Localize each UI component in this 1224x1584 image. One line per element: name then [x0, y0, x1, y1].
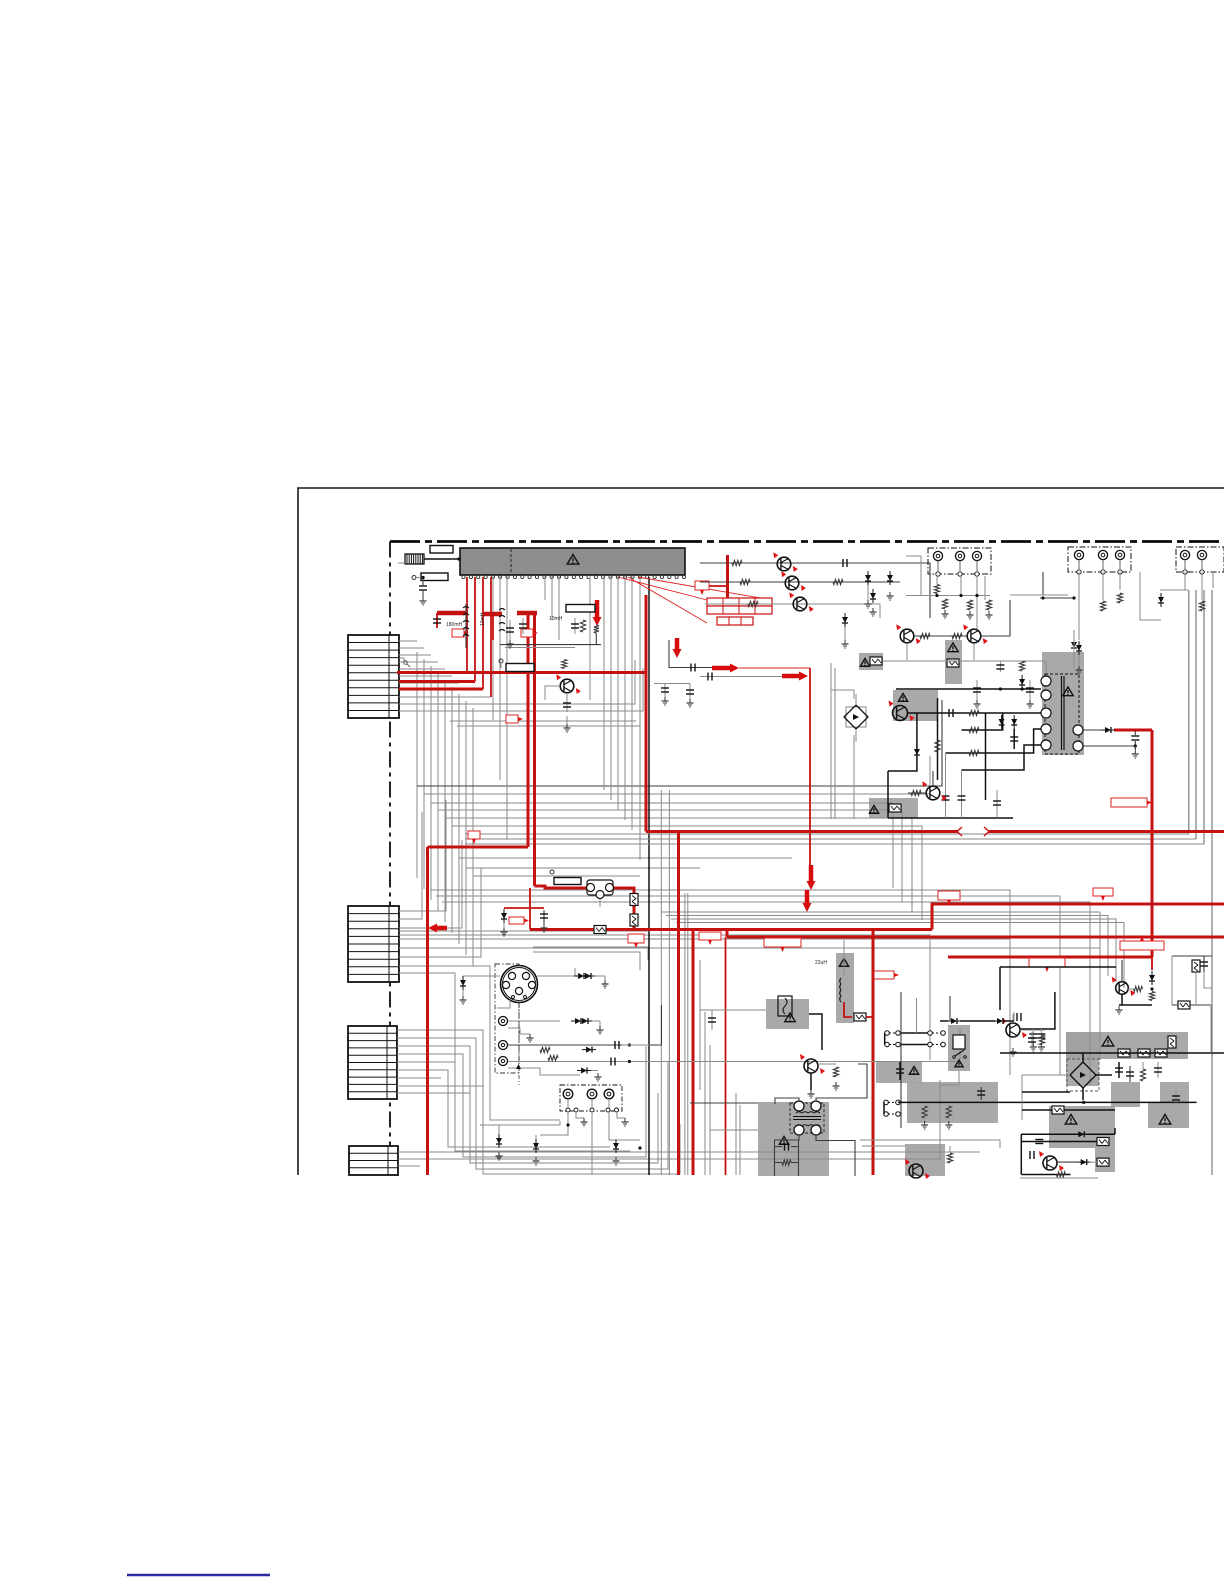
- red pair bar: [517, 611, 537, 616]
- wire mid bundle: [417, 700, 942, 786]
- wire fence vertical: [709, 1045, 711, 1175]
- svg-text:180mH: 180mH: [446, 622, 463, 628]
- transformer T602 core: [793, 1112, 821, 1126]
- wire smps drain: [908, 712, 1041, 714]
- wire vertical bundle: [423, 659, 425, 889]
- wire nest: [442, 902, 1090, 1085]
- gnd rg8b: [945, 1121, 952, 1129]
- red label box mid1: [699, 932, 721, 945]
- warning triangle mid: [909, 1067, 918, 1075]
- capacitor Cq616: [1030, 1151, 1034, 1159]
- chassis dash-dot boundary vertical: [389, 542, 391, 1176]
- red bus y931: [530, 928, 932, 931]
- diode Db3: [613, 1139, 620, 1165]
- red ic pin drops: [467, 577, 491, 697]
- dot j602a: [1072, 596, 1075, 599]
- fuse F601: [630, 894, 638, 906]
- gnd q615: [1010, 1048, 1017, 1056]
- wire ic pin drop: [603, 576, 605, 790]
- wire nest: [671, 919, 1116, 982]
- wire db602 bot: [1082, 1088, 1084, 1100]
- diode Ds1: [999, 715, 1005, 729]
- wire t601 right out: [1083, 729, 1104, 731]
- fuse RC2: [1178, 1001, 1190, 1009]
- red vertical x427: [426, 847, 429, 1175]
- red label ptr5: [628, 934, 644, 948]
- jumper pairs JP2: [884, 1100, 901, 1116]
- fuse element: [778, 996, 792, 1016]
- red wire CN1 pin bus 2: [399, 688, 483, 691]
- wire CN2 row e: [399, 939, 1010, 1075]
- red pin table: [707, 598, 772, 625]
- wire right bundle a: [1188, 590, 1190, 834]
- gray box switch: [948, 1025, 970, 1071]
- resistor R616: [952, 633, 962, 638]
- fuse G1c: [1155, 1049, 1167, 1057]
- wire mid bundle: [431, 803, 893, 888]
- dot b2: [638, 1146, 641, 1149]
- wire t602 top1: [775, 1098, 799, 1104]
- wire CN3 staircase: [397, 1046, 646, 1157]
- triangle marker: [516, 1064, 521, 1069]
- capacitor C667: [691, 664, 695, 672]
- red diag fan2: [638, 577, 772, 600]
- wire db602 left: [1022, 1074, 1070, 1076]
- red small label: [695, 581, 709, 595]
- crt socket outer: [501, 966, 538, 1003]
- fuse G6b: [1097, 1158, 1109, 1166]
- wire q617 e: [1121, 994, 1123, 1005]
- wire q605 right: [981, 600, 1010, 636]
- capacitor C607: [506, 620, 514, 648]
- wire cn5 2: [591, 1099, 593, 1108]
- red drop x727: [726, 930, 729, 938]
- wire jp left: [884, 1033, 886, 1045]
- wire q613 col: [810, 1073, 812, 1090]
- resistor Rg8a: [922, 1106, 927, 1118]
- wire row y563: [700, 563, 930, 618]
- wire bus right: [465, 843, 1204, 845]
- wire harness CN4: [398, 1151, 980, 1153]
- dot j602b: [1041, 596, 1044, 599]
- resistor RJ3: [967, 600, 972, 610]
- wire ic pin drop: [624, 576, 626, 820]
- resistor Rq615: [1039, 1035, 1044, 1045]
- wire ic pin drop: [631, 576, 633, 830]
- red relay feed: [535, 886, 588, 888]
- label box tp1: [566, 605, 595, 613]
- wire ic pin drop: [499, 576, 501, 780]
- capacitor Ctop1: [996, 661, 1004, 672]
- connector CN5 dash-dot: [560, 1085, 622, 1111]
- test point circle: [412, 576, 425, 580]
- dot smps1: [999, 687, 1002, 690]
- wire smps v-drain: [888, 713, 917, 771]
- wire under-bus a: [533, 947, 648, 960]
- wire t602 chain v: [798, 1140, 800, 1176]
- resistor R613: [748, 601, 758, 606]
- red label ptr4: [468, 831, 480, 844]
- fuse resistor FA: [947, 659, 959, 667]
- red bus y831 cont: [988, 830, 1224, 833]
- gray box cap mid: [876, 1062, 922, 1083]
- gray box G2: [1111, 1082, 1140, 1107]
- wire y667 left: [669, 640, 712, 668]
- connector J602 dash-dot: [1068, 547, 1131, 574]
- dot q617: [1150, 987, 1153, 990]
- chassis dash-dot boundary horizontal: [390, 540, 1224, 543]
- fuse G1b: [1138, 1049, 1150, 1057]
- warning triangle G1: [1102, 1036, 1114, 1046]
- wire db602 top: [1082, 1053, 1084, 1062]
- red label diode: [509, 917, 529, 924]
- wire db602 leftv: [1021, 1075, 1023, 1120]
- wire y644: [500, 644, 601, 646]
- wire right bundle b: [1195, 590, 1197, 839]
- connector J603 dash-dot: [1176, 547, 1224, 574]
- wire q616 r: [1090, 1161, 1097, 1163]
- wire ic pin drop: [610, 576, 612, 800]
- diode column x845: [842, 613, 849, 648]
- wire x916 drop: [916, 998, 918, 1033]
- wire smps v2: [937, 698, 939, 780]
- capacitor Cr3: [1154, 1062, 1162, 1078]
- red wire CN1 pin bus 1: [399, 680, 475, 683]
- relay test circle: [550, 870, 554, 874]
- gnd cn5a: [581, 1118, 588, 1126]
- wire rc left v: [1171, 956, 1173, 1005]
- wire q616 bottom: [1020, 1177, 1098, 1179]
- wire ic pin drop: [492, 576, 494, 720]
- wire crt stub: [497, 1000, 510, 1008]
- coil L603: [840, 978, 841, 1002]
- diode Dv1: [582, 1047, 596, 1053]
- red diag fan1: [618, 577, 707, 600]
- gray box G3: [1148, 1102, 1189, 1128]
- wire fence vertical: [704, 1012, 706, 1175]
- wire q617 b: [1128, 988, 1133, 990]
- gray box warn B: [859, 653, 883, 670]
- connector CN2: [348, 906, 399, 982]
- capacitor C684a: [661, 684, 669, 706]
- connector CN1: [348, 635, 399, 718]
- capacitor C684b: [686, 684, 694, 708]
- gnd rj3b: [986, 611, 993, 619]
- wire q615 b: [1020, 1029, 1045, 1031]
- capacitor C623: [1026, 680, 1034, 708]
- transistor Q617: [1112, 977, 1136, 996]
- capacitor Cr4: [1172, 1090, 1180, 1106]
- red arrow left cn2: [428, 924, 447, 933]
- diode D611: [865, 571, 872, 608]
- transformer T602 dashed: [790, 1103, 824, 1133]
- connector CN3: [348, 1026, 397, 1099]
- capacitor Cb1: [942, 753, 950, 818]
- resistor Rq617b: [1149, 992, 1154, 1001]
- capacitor Cq615: [1028, 1032, 1036, 1048]
- wire v1115: [1114, 1128, 1116, 1134]
- rca jack J2: [499, 1041, 508, 1050]
- resistor Rs1: [969, 710, 979, 715]
- crt socket pins: [502, 972, 535, 998]
- diode Dq617: [1149, 971, 1155, 985]
- capacitor Cs1: [949, 709, 953, 717]
- transistor Q616: [1039, 1151, 1064, 1171]
- capacitor C608: [519, 618, 527, 634]
- capacitor Csec: [1131, 731, 1139, 758]
- diode Dsec: [1101, 727, 1115, 733]
- capacitor Cs2: [1010, 729, 1018, 749]
- resistor RJ6: [1199, 601, 1204, 611]
- wire sw link: [960, 1020, 995, 1022]
- warning triangle C: [869, 806, 878, 814]
- wire q615 top: [1012, 1014, 1014, 1023]
- wire cn5 3: [608, 1099, 610, 1108]
- wire x950 up: [949, 996, 951, 1021]
- red link x530: [529, 888, 531, 930]
- wire row1141: [1021, 1141, 1097, 1143]
- red label box mid2: [764, 938, 801, 952]
- resistor Rr1: [1140, 1069, 1145, 1081]
- wire rj1 d: [936, 594, 938, 596]
- transistor Q606: [556, 674, 581, 694]
- gray box G1: [1066, 1032, 1188, 1059]
- red diag fan3: [628, 577, 707, 623]
- wire vertical bundle: [444, 680, 446, 922]
- wire rt2 l: [775, 1162, 783, 1164]
- wire fence vertical: [739, 1105, 741, 1175]
- wire nest: [676, 923, 1124, 989]
- fuse FC: [889, 804, 901, 812]
- wires J601 drops: [937, 576, 985, 629]
- warning triangle on IC601: [567, 554, 579, 564]
- wire mid bundle: [424, 756, 930, 794]
- wire bus right: [465, 838, 1196, 840]
- red label box right1: [938, 891, 960, 905]
- transformer T601 pins: [1041, 676, 1083, 751]
- diode Dsw2: [993, 1018, 1007, 1024]
- resistor R1174: [1056, 1172, 1065, 1177]
- footer blue rule: [127, 1574, 270, 1576]
- wire row y582: [700, 581, 900, 583]
- transformer T602 pins: [794, 1101, 821, 1135]
- transistor Q618: [905, 1159, 930, 1179]
- connector J601 dash-dot: [928, 548, 991, 576]
- wire ic pin drop: [558, 576, 560, 640]
- wire q612 base: [908, 792, 926, 794]
- red arrow down 1: [593, 600, 602, 626]
- red wire y1017b: [866, 1016, 873, 1018]
- red vertical x693: [692, 930, 695, 1176]
- wire CN2 row d: [399, 930, 648, 932]
- wire CN1 pin row697: [399, 696, 491, 698]
- wire CN1 row: [399, 682, 459, 684]
- transformer T601 gray box: [1042, 652, 1084, 755]
- wire nest: [436, 896, 1060, 1075]
- diode Dcrt0: [460, 976, 467, 1004]
- wire g5 v: [1022, 1109, 1052, 1111]
- wire nest: [661, 912, 1100, 970]
- diode D612: [870, 589, 877, 616]
- wire CN2 row f: [399, 948, 1100, 1060]
- gnd cn5b: [622, 1118, 629, 1126]
- resistor Rq613: [833, 1067, 838, 1077]
- wire rt2 r: [791, 1162, 799, 1164]
- wire right top link: [1160, 589, 1188, 591]
- relay RY601: [587, 880, 614, 907]
- gnd rca1b: [527, 1034, 534, 1042]
- capacitor CC1: [1200, 956, 1208, 972]
- capacitor C601: [419, 576, 427, 605]
- bridge rectifier DB601: [844, 705, 868, 729]
- capacitor Cb2: [958, 770, 966, 818]
- svg-text:10mH: 10mH: [549, 616, 563, 622]
- transformer T602 gray box: [758, 1102, 829, 1176]
- resistor R615: [920, 633, 930, 638]
- wire vertical bundle: [458, 694, 460, 944]
- wire g7: [862, 1145, 905, 1147]
- wire vertical bundle: [430, 666, 432, 900]
- coil L602: [499, 609, 505, 632]
- warning triangle E: [839, 959, 848, 967]
- transistor Q611 mosfet: [889, 701, 915, 722]
- capacitor Cmid: [896, 1062, 904, 1080]
- gray box G7: [905, 1144, 945, 1176]
- crt dash-dot box: [495, 964, 519, 1073]
- warning triangle B: [860, 659, 869, 667]
- wire v bus2: [508, 1068, 580, 1075]
- resistor Rq612: [911, 790, 921, 795]
- capacitor Cv2: [611, 1058, 615, 1066]
- wire q606 base: [545, 686, 560, 700]
- wire J602 h598: [1040, 597, 1074, 599]
- wire CN1 721: [450, 720, 636, 722]
- wire mid bundle: [445, 818, 912, 912]
- crt center dashline: [518, 1003, 520, 1085]
- wire CN2 row b: [399, 812, 422, 919]
- diode Db2: [533, 1135, 540, 1165]
- black y1103: [690, 1102, 758, 1104]
- gray box under: [869, 798, 918, 818]
- diode Dcrt1: [574, 973, 609, 988]
- red label ptr2: [521, 629, 538, 637]
- resistor Rt2: [782, 1160, 791, 1165]
- red wire y668 link: [739, 667, 810, 669]
- wire CN1 row: [399, 689, 466, 691]
- red wire y847: [428, 846, 529, 849]
- wire CN2 row d2: [399, 935, 930, 1060]
- gray box G6: [1095, 1148, 1115, 1172]
- transistor Q602: [781, 571, 806, 591]
- diode D613: [887, 571, 894, 600]
- gray box G4: [1160, 1082, 1189, 1102]
- gnd q617: [1116, 1006, 1123, 1014]
- capacitor C611: [843, 559, 847, 567]
- gnd rj3: [967, 611, 974, 619]
- red vertical x1152: [1151, 730, 1154, 957]
- diode Dq616: [1077, 1159, 1091, 1165]
- wire crt top: [463, 975, 500, 977]
- rca jack J1: [499, 1017, 508, 1026]
- resistor R611: [732, 560, 742, 565]
- transformer T601 core lines: [1062, 676, 1065, 750]
- capacitor Cr1: [1115, 1062, 1123, 1078]
- wire right bundle c: [1203, 590, 1205, 844]
- fuse F602: [630, 914, 638, 926]
- diode Ds0: [914, 745, 920, 759]
- wire CN2 row a: [399, 800, 446, 911]
- red wire y1017: [844, 1002, 852, 1017]
- connector CN5 pins: [566, 1108, 619, 1112]
- red diode feed: [501, 909, 508, 936]
- ic IC601 divider: [510, 549, 512, 574]
- gnd rj2: [942, 610, 949, 618]
- wire rc corner: [1210, 1005, 1212, 1053]
- resistor Rv1: [540, 1047, 550, 1052]
- red cap branch: [540, 910, 548, 932]
- crystal X601: [405, 554, 461, 564]
- red diode end: [1151, 957, 1153, 970]
- wire vertical gray: [660, 790, 662, 1175]
- capacitor Cq615a: [1029, 1029, 1037, 1051]
- red label box right3: [1111, 798, 1152, 807]
- red wire y908: [504, 907, 544, 909]
- wire CN1 row: [399, 661, 438, 663]
- wire ct2 l: [775, 1146, 783, 1148]
- resistor R-below-arrow: [594, 625, 599, 633]
- wire q615 right up: [1020, 992, 1055, 1029]
- connector CN4: [349, 1146, 398, 1175]
- red label box right2: [1029, 958, 1065, 972]
- wire CN1 row: [399, 675, 452, 677]
- red vertical x678: [677, 832, 680, 1176]
- wire jp2 left: [883, 1102, 885, 1114]
- fuse G1a: [1118, 1049, 1130, 1057]
- red bus y728: [1114, 729, 1152, 732]
- wire vertical bundle: [465, 701, 467, 955]
- wire bus right: [465, 833, 1189, 835]
- wire ic pin drop: [589, 576, 591, 700]
- wire smps v4: [887, 771, 889, 818]
- wire cn5 d1: [540, 1112, 568, 1135]
- wire y647: [505, 647, 575, 649]
- black bus y1102: [898, 1101, 1197, 1103]
- wire CN3 staircase: [397, 1046, 658, 1163]
- red fuse link2: [633, 924, 636, 930]
- wire h1010: [700, 1009, 766, 1011]
- gray box G5: [1049, 1106, 1115, 1148]
- warning triangle SW: [955, 1060, 963, 1067]
- wire CN3 staircase: [397, 1062, 630, 1151]
- wire mid bundle: [452, 826, 922, 920]
- wire bridge loop a: [830, 663, 832, 819]
- wire CN3 row g: [397, 1077, 441, 1079]
- resistor RJ3b: [986, 600, 991, 610]
- wire cn5 d3: [609, 1112, 640, 1140]
- gray box G8: [907, 1082, 998, 1123]
- wire t601 right out2: [1083, 745, 1135, 747]
- wire q612 c: [932, 771, 934, 786]
- dot rca2: [628, 1043, 631, 1046]
- wire bridge loop b: [834, 668, 836, 819]
- transistor Q613: [800, 1054, 825, 1074]
- diode DJ2: [1076, 641, 1083, 674]
- wire CN2 row j: [399, 973, 455, 1068]
- wire x1074: [1073, 630, 1075, 668]
- wire nest: [430, 890, 1010, 1060]
- red drop x493: [492, 614, 494, 640]
- wire CN2 row c: [399, 840, 462, 928]
